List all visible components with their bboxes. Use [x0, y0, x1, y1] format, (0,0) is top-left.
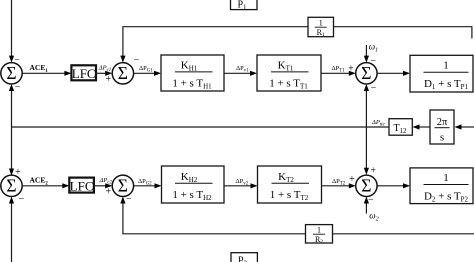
block droop 1/R1	[308, 17, 334, 38]
svg-text:+: +	[105, 187, 111, 198]
block governor KH1/(1+sTH1)	[161, 55, 224, 91]
svg-text:+: +	[15, 167, 21, 178]
svg-text:−: −	[368, 195, 374, 206]
block droop 1/R2	[306, 225, 333, 246]
wire ACE1 from S1 to LFC block	[22, 71, 71, 76]
block tie-line gain T12	[389, 119, 412, 136]
wire omega1 input into S5 top	[364, 45, 369, 63]
svg-text:+: +	[349, 174, 355, 185]
svg-text:Σ: Σ	[118, 176, 128, 196]
wire droop feedback R2 horizontal (left of 1/R2 block) into S4 bottom	[120, 197, 305, 234]
wire from S5 to area 1 plant block	[377, 71, 410, 76]
block governor KH2/(1+sTH2)	[162, 166, 225, 203]
wire tie-line input from right edge into 2pi/s block	[455, 124, 474, 129]
box P1 (top reference label, clipped at top)	[231, 0, 258, 11]
block turbine KT2/(1+sTT2)	[258, 166, 322, 203]
wire dPG1 from S3 to governor block	[134, 71, 161, 76]
summing junction S4 (area 2 governor input)	[112, 175, 133, 196]
svg-text:+: +	[348, 64, 354, 75]
svg-text:Σ: Σ	[361, 176, 371, 196]
wire omega2 input into S6 bottom	[364, 197, 369, 214]
svg-text:1: 1	[443, 60, 449, 72]
svg-text:−: −	[371, 82, 377, 93]
wire droop feedback R1: right edge stub down	[471, 27, 473, 39]
svg-text:+: +	[370, 166, 376, 177]
block turbine KT1/(1+sTT1)	[257, 55, 321, 91]
wire dPV2 from governor to turbine block (area 2)	[224, 183, 258, 188]
wire dPG2 from S4 to governor block (area 2)	[134, 183, 162, 188]
block LFC U1 (area 1 load frequency controller)	[71, 65, 96, 81]
block LFC U2 (area 2 load frequency controller)	[69, 178, 94, 194]
wire dPT2 from turbine to summing junction S6	[322, 183, 356, 188]
svg-text:Σ: Σ	[118, 63, 128, 83]
summing junction S6 (area 2 power balance)	[356, 175, 377, 196]
wire dPT1 from turbine to summing junction S5	[321, 71, 356, 76]
svg-text:Σ: Σ	[6, 176, 16, 196]
svg-text:−: −	[126, 194, 132, 205]
svg-text:1: 1	[317, 226, 321, 235]
svg-text:LFC: LFC	[72, 66, 96, 81]
wire dPc1 from LFC to summing junction S3	[96, 71, 112, 76]
svg-text:s: s	[440, 133, 444, 144]
box P2 (bottom reference label, clipped at bottom)	[231, 253, 257, 262]
svg-text:2π: 2π	[437, 117, 448, 128]
svg-text:LFC: LFC	[70, 179, 94, 194]
svg-text:−: −	[19, 194, 25, 205]
summing junction S5 (area 1 power balance)	[356, 63, 377, 84]
wire droop feedback R1 horizontal (right of 1/R1 block)	[334, 26, 473, 28]
wire dPV1 from governor to turbine block	[224, 71, 257, 76]
wire dPc2 from LFC to summing junction S4	[94, 183, 112, 188]
block integrator 2pi/s	[430, 110, 454, 144]
summing junction S1 (area 1 ACE)	[1, 63, 22, 84]
wire droop feedback R1 horizontal (left of 1/R1 block) into S3 top	[120, 27, 308, 63]
block plant 1/(D2+sTP2)	[410, 168, 473, 204]
wire from S6 to area 2 plant block	[377, 183, 410, 188]
wire dPtie branch up into S5 bottom and down into S6 top	[364, 84, 369, 175]
wire droop feedback R2 horizontal (right of 1/R2 block) from right edge	[333, 233, 474, 235]
wire dPtie branch up into S1 bottom and down into S2 top	[9, 84, 14, 176]
wire bottom input into summing junction S2 from bottom edge	[9, 197, 14, 262]
svg-text:1: 1	[319, 19, 323, 28]
svg-text:−: −	[14, 55, 20, 66]
svg-text:Σ: Σ	[6, 63, 16, 83]
wire ACE2 from S2 to LFC block (area 2)	[22, 183, 69, 188]
svg-text:−: −	[370, 56, 376, 67]
svg-text:1: 1	[443, 172, 449, 184]
wire from 2pi/s into T12 block	[413, 124, 431, 129]
summing junction S3 (area 1 governor input)	[112, 63, 133, 84]
summing junction S2 (area 2 ACE)	[1, 175, 22, 196]
wire dPtie bus from T12 left across to x=11.5	[12, 126, 390, 128]
wire top input into summing junction S1 (area-1 ACE feedback from top)	[9, 0, 14, 63]
block plant 1/(D1+sTP1)	[410, 55, 473, 92]
svg-text:−: −	[15, 82, 21, 93]
svg-text:+: +	[105, 74, 111, 85]
